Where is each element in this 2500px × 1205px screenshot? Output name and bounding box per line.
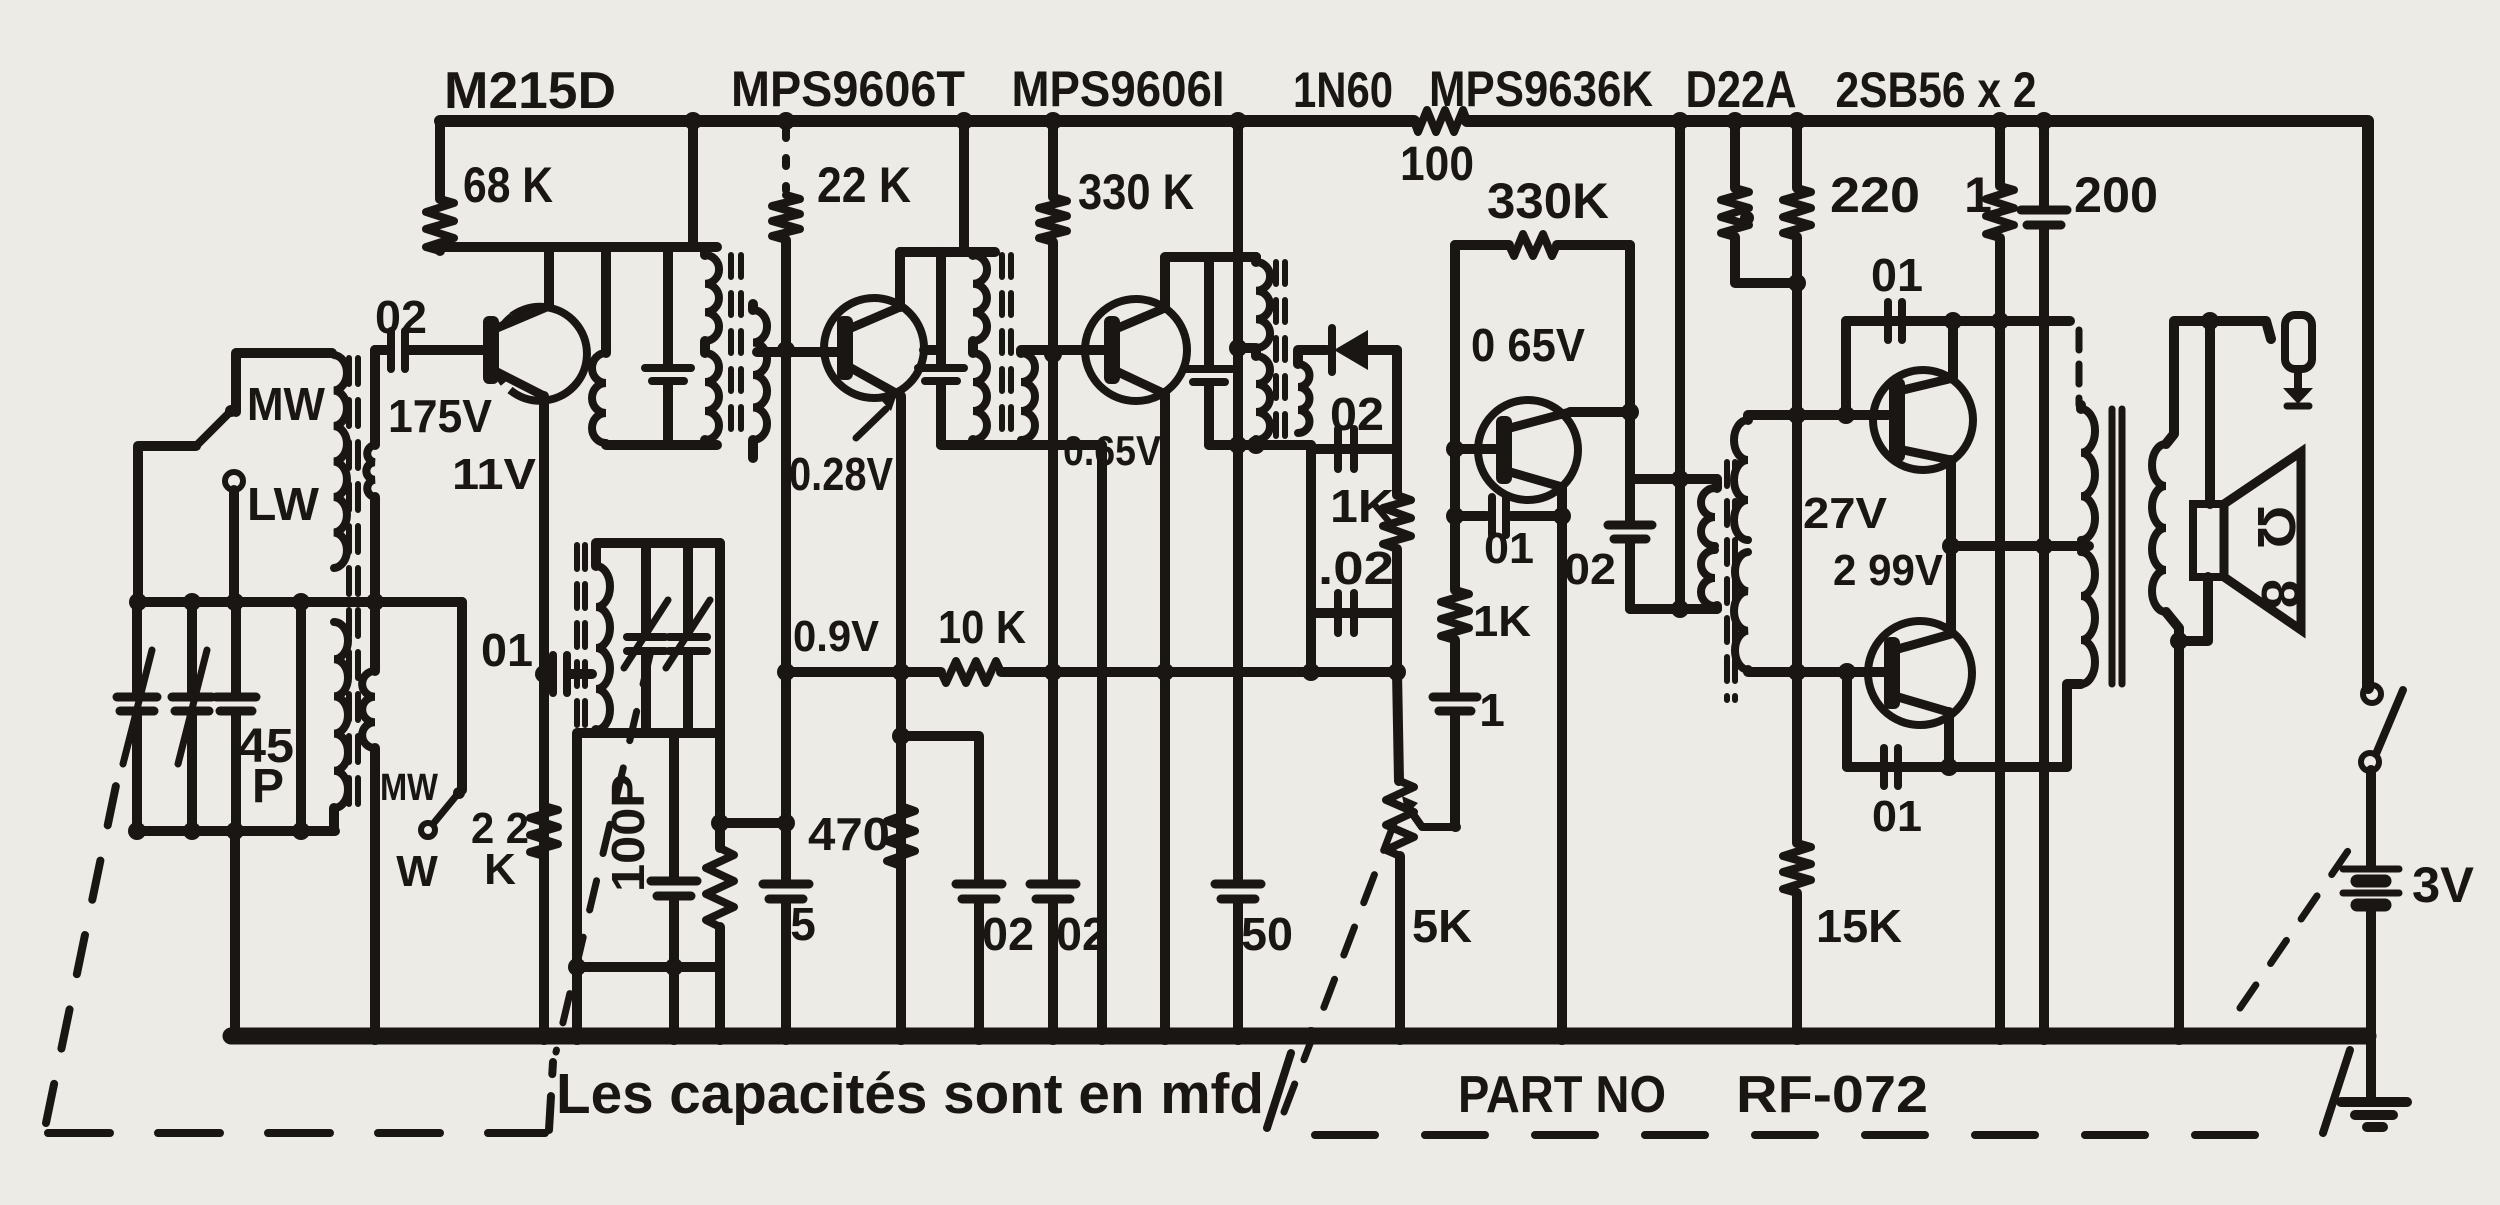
node label MPS9606I — [1012, 61, 1225, 117]
svg-text:LW: LW — [247, 478, 320, 530]
svg-text:0.65V: 0.65V — [1063, 427, 1161, 474]
ferrite core osc — [577, 545, 585, 730]
svg-text:27V: 27V — [1803, 489, 1888, 538]
coil IF1 aux — [592, 247, 606, 443]
svg-text:MPS9606T: MPS9606T — [731, 61, 965, 117]
label MW — [247, 378, 326, 430]
wire Q5 emitter — [1946, 460, 1956, 632]
node top bus dots — [684, 112, 2053, 130]
pot wiper — [1402, 796, 1456, 827]
label P — [252, 760, 284, 813]
svg-text:01: 01 — [1871, 249, 1923, 301]
coil secondary MW — [366, 445, 375, 497]
svg-text:0.9V: 0.9V — [793, 612, 880, 661]
wire band switch drop — [457, 602, 467, 790]
svg-text:22 K: 22 K — [817, 157, 911, 213]
outline slash mfd — [1267, 1053, 1291, 1128]
capacitor variable 2 — [172, 602, 212, 831]
resistor 22K emitter — [530, 806, 558, 856]
wire out cap line — [1847, 672, 2067, 767]
node r1 dot — [1991, 312, 2009, 330]
svg-text:2 99V: 2 99V — [1833, 546, 1944, 595]
transistor Q2 MPS9606T — [824, 298, 924, 398]
capacitor 45P — [216, 602, 256, 831]
ferrite core T5 — [1727, 462, 1735, 700]
node sec top dot — [2201, 312, 2219, 330]
label 0.65V — [1063, 427, 1161, 474]
label 11V — [452, 450, 537, 499]
label 5K — [1412, 900, 1472, 952]
wire det sec top — [1298, 350, 1327, 364]
node IF3 rail dots — [1229, 436, 1265, 454]
capacitor det .02 — [1338, 593, 1354, 633]
label 45 — [238, 720, 294, 773]
svg-text:0.28V: 0.28V — [789, 448, 893, 500]
svg-text:5: 5 — [790, 898, 816, 950]
svg-text:Ω: Ω — [2246, 505, 2306, 548]
outline left diagonal — [46, 766, 120, 1123]
mech link osc — [556, 655, 650, 1052]
svg-text:02: 02 — [375, 291, 427, 343]
ferrite core IF2 — [1002, 255, 1011, 440]
node label MPS9606T — [731, 61, 965, 117]
wire MW coil box — [236, 353, 332, 412]
node bias dots — [777, 341, 795, 832]
label 22 — [471, 804, 529, 853]
label 01 bottom — [1872, 792, 1922, 841]
svg-text:01: 01 — [1484, 524, 1534, 573]
wire top bus left — [440, 115, 1414, 127]
node label M215D — [444, 62, 616, 120]
wire speaker top lead — [2205, 321, 2215, 504]
wire junction rail y602 — [138, 597, 462, 607]
label 0.28V — [789, 448, 893, 500]
outline step — [549, 1062, 553, 1130]
node center tap join — [1942, 537, 1960, 555]
label part no — [1458, 1066, 1666, 1124]
node label 2SB56x2 — [1836, 62, 2037, 118]
svg-text:68 K: 68 K — [463, 157, 553, 213]
node cap01 dots — [1446, 507, 1571, 525]
label 100P — [602, 774, 654, 892]
svg-text:02: 02 — [1056, 908, 1108, 960]
label 68K — [463, 157, 553, 213]
transistor Q5 2SB56a — [1873, 370, 1973, 470]
svg-text:0 65V: 0 65V — [1471, 319, 1585, 371]
node osc fb top — [711, 814, 729, 832]
label 02 driver — [1564, 545, 1616, 594]
coil oscillator — [596, 566, 610, 730]
svg-text:MW: MW — [380, 767, 438, 809]
label K — [484, 845, 516, 894]
wire Q4 box left — [1450, 245, 1460, 449]
wire base lead Q4 — [1455, 444, 1504, 454]
outline bottom left — [48, 1129, 545, 1137]
wire bottom bus — [231, 1028, 2368, 1045]
coil IF3 secondary — [1298, 364, 1310, 433]
label 100 — [1400, 138, 1474, 191]
svg-text:15K: 15K — [1816, 900, 1902, 952]
wire det output drop — [1392, 350, 1402, 449]
svg-text:02: 02 — [1330, 388, 1384, 440]
label 1K Q4 — [1473, 597, 1531, 646]
resistor osc feedback — [706, 823, 734, 1036]
svg-text:5K: 5K — [1412, 900, 1472, 952]
wire det cap1 line — [1311, 444, 1397, 454]
capacitor 02a — [956, 884, 1002, 1036]
label 3V — [2412, 857, 2475, 913]
coil IF3 primary — [1256, 257, 1270, 445]
capacitor 02 driver — [1608, 479, 1652, 609]
coil T6 secondary — [2152, 444, 2166, 612]
capacitor 01 Q4 — [1455, 497, 1562, 535]
node dots y602 — [129, 593, 384, 611]
wire left end riser — [230, 831, 240, 1036]
capacitor 02b — [1030, 884, 1076, 899]
wire Q4 box right — [1625, 245, 1635, 479]
svg-text:1: 1 — [1964, 167, 1992, 223]
capacitor IF1 tank — [645, 247, 691, 445]
wire battery to ground — [2366, 908, 2376, 1098]
svg-text:W: W — [396, 847, 438, 896]
svg-text:1: 1 — [1479, 684, 1505, 736]
capacitor 200 — [2021, 121, 2067, 1036]
label LW — [247, 478, 320, 530]
wire base lead Q2 — [757, 347, 839, 357]
resistor 10K — [941, 661, 1001, 683]
coil antenna LW — [334, 622, 348, 808]
node bias dots PP — [1788, 274, 1806, 681]
wire osc bottom rail — [577, 967, 720, 1036]
label 470 — [808, 808, 890, 860]
wire IF2 inner — [924, 345, 941, 355]
wire T5 sec top lead — [1748, 415, 1888, 420]
outline bottom right — [1315, 1131, 2262, 1139]
battery 3V — [2343, 869, 2399, 905]
wire base lead Q1 — [406, 345, 486, 355]
wire cap01 line top — [1846, 321, 1994, 415]
capacitor IF3 tank — [1186, 257, 1232, 445]
label MW small — [380, 767, 438, 809]
resistor 330K fb — [1509, 234, 1557, 256]
svg-text:330K: 330K — [1487, 173, 1609, 229]
resistor 1K Q4 — [1441, 449, 1469, 640]
coil IF1 secondary — [753, 304, 767, 440]
wire collector Q2 — [900, 252, 995, 307]
transistor Q4 MPS9636K — [1478, 400, 1578, 500]
label .02 — [1318, 542, 1394, 594]
ground — [2341, 1102, 2407, 1127]
label 220 — [1830, 167, 1920, 223]
mech link pot — [1284, 818, 1396, 1112]
coil T5 primary — [1701, 479, 1717, 609]
wire det to pot — [1392, 613, 1402, 672]
wire feedback dashes — [1994, 321, 2079, 405]
svg-text:3V: 3V — [2412, 857, 2475, 913]
resistor 470 — [887, 806, 915, 866]
svg-text:02: 02 — [982, 908, 1034, 960]
node emitter dot Q3 — [1156, 663, 1174, 681]
node label MPS9636K — [1429, 61, 1653, 117]
label 01 osc — [481, 624, 533, 676]
svg-text:02: 02 — [1564, 545, 1616, 594]
wire speaker bottom lead — [2179, 577, 2208, 641]
label 1K det — [1330, 480, 1394, 532]
trimmer 1 — [624, 543, 668, 733]
label 02a — [982, 908, 1034, 960]
mech link switch — [2240, 845, 2352, 1008]
svg-text:01: 01 — [1872, 792, 1922, 841]
wire IF2 top — [900, 252, 973, 307]
svg-text:175V: 175V — [388, 390, 492, 442]
resistor 100 — [1414, 110, 1467, 132]
capacitor 1 — [1433, 640, 1477, 827]
jack earphone — [2283, 315, 2313, 406]
wire emitter column Q3 — [1160, 394, 1170, 1036]
wire osc left drop — [577, 733, 596, 1036]
trimmer 2 — [666, 543, 710, 733]
wire emitter column Q2 — [896, 396, 906, 1036]
svg-text:01: 01 — [481, 624, 533, 676]
capacitor variable 1 — [117, 602, 157, 831]
label rf072 — [1736, 1066, 1928, 1124]
label 15K — [1816, 900, 1902, 952]
capacitor 01 top — [1888, 302, 1902, 340]
svg-text:M215D: M215D — [444, 62, 616, 120]
ferrite core — [349, 358, 358, 818]
node osc drop — [568, 958, 586, 976]
wire gang bottom rail — [137, 826, 335, 836]
transistor Q6 2SB56b — [1868, 621, 1972, 725]
wire T5 feed — [1675, 121, 1685, 609]
label 1 — [1479, 684, 1505, 736]
wire secondary column — [370, 350, 380, 1036]
label 0.9V — [793, 612, 880, 661]
label 299V — [1833, 546, 1944, 595]
wire det cap2 line — [1311, 608, 1397, 618]
coil secondary LW — [362, 671, 375, 748]
capacitor 02 base — [391, 331, 405, 369]
wire IF2 feed — [959, 121, 969, 252]
capacitor IF2 tank — [918, 252, 964, 445]
label 330K — [1078, 164, 1194, 220]
coil T5 secondary bottom — [1734, 552, 1748, 670]
wire bias column — [1792, 237, 1802, 1036]
wire out to primary — [2067, 684, 2081, 767]
node ct dot — [2035, 537, 2053, 555]
capacitor 01 bottom — [1884, 748, 1898, 786]
resistor 1ohm — [1986, 121, 2014, 1036]
switch band contact — [421, 787, 465, 837]
label 01 top — [1871, 249, 1923, 301]
node label D22A — [1686, 61, 1797, 119]
wire Q4 box top — [1455, 240, 1630, 250]
transistor Q1 M215D — [483, 306, 587, 401]
svg-text:8: 8 — [2250, 579, 2310, 609]
node base Q4 — [1446, 440, 1464, 458]
wire plain column — [296, 602, 306, 831]
coil T5 secondary top — [1734, 420, 1748, 540]
svg-text:1K: 1K — [1330, 480, 1394, 532]
wire IF3 bottom rail — [1209, 440, 1311, 450]
wire T6 sec top — [2166, 321, 2271, 444]
wire Q5 collector — [1948, 321, 1958, 378]
ferrite core IF1 — [731, 255, 741, 440]
wire det left column — [1306, 445, 1316, 674]
resistor 1K det — [1383, 449, 1411, 613]
wire osc box — [596, 543, 720, 823]
svg-text:P: P — [252, 760, 284, 813]
wire collector Q4 — [1570, 407, 1630, 417]
svg-text:330 K: 330 K — [1078, 164, 1194, 220]
wire base lead Q3 — [1021, 350, 1105, 353]
wire switch to battery — [2366, 770, 2376, 866]
capacitor 100P — [651, 733, 697, 967]
svg-text:10 K: 10 K — [938, 601, 1026, 653]
svg-text:220: 220 — [1830, 167, 1920, 223]
svg-text:MPS9606I: MPS9606I — [1012, 61, 1225, 117]
svg-text:1N60: 1N60 — [1293, 62, 1393, 118]
wire agc drop — [1097, 445, 1107, 1036]
resistor 220 — [1783, 121, 1811, 237]
label 02b — [1056, 908, 1108, 960]
node emitter junction — [535, 665, 553, 683]
wire IF2 bottom — [941, 440, 1102, 450]
svg-text:D22A: D22A — [1686, 61, 1797, 119]
svg-text:11V: 11V — [452, 450, 537, 499]
wire IF1 bottom — [606, 440, 717, 450]
resistor 22K — [772, 130, 800, 240]
coil IF2 primary — [973, 252, 987, 445]
ferrite core IF3 — [1276, 262, 1285, 440]
wire center tap — [1951, 541, 2089, 551]
label 22K — [817, 157, 911, 213]
label 200 — [2074, 167, 2158, 223]
wire T6 sec bottom — [2166, 612, 2179, 1036]
label speaker ohm — [2246, 505, 2306, 548]
label 175V — [388, 390, 492, 442]
coil IF1 primary — [705, 247, 719, 445]
node spk bottom dot — [2170, 632, 2188, 650]
wire top bus right — [1467, 121, 2368, 688]
label 10K — [938, 601, 1026, 653]
node collector Q4 — [1621, 403, 1639, 421]
potentiometer 5K — [1386, 672, 1414, 1036]
svg-text:Les capacités sont en mfd: Les capacités sont en mfd — [556, 1062, 1264, 1126]
coil IF2 secondary — [1021, 353, 1035, 440]
node emitter dots Q2 — [892, 663, 910, 745]
wire IF1 sec bottom — [748, 440, 758, 458]
capacitor 01 osc — [544, 655, 592, 693]
outline slash right — [2323, 1050, 2350, 1133]
resistor 15K — [1783, 843, 1811, 893]
wire emitter column Q1 — [539, 396, 549, 1036]
wire T5 box — [1630, 479, 1717, 609]
node cap01 top dots — [1837, 312, 1962, 424]
node dots y831 — [128, 822, 310, 840]
capacitor 50 — [1215, 449, 1261, 1036]
svg-text:1K: 1K — [1473, 597, 1531, 646]
svg-text:.02: .02 — [1318, 542, 1394, 594]
wire antenna top stub — [138, 446, 196, 602]
wire base coupling — [375, 345, 390, 355]
diode 1N60 — [1332, 328, 1397, 372]
svg-text:RF-072: RF-072 — [1736, 1066, 1928, 1124]
svg-text:MW: MW — [247, 378, 326, 430]
label det 02 — [1330, 388, 1384, 440]
svg-text:100: 100 — [1400, 138, 1474, 191]
svg-text:50: 50 — [1241, 908, 1293, 960]
wire bias column Q2 — [781, 240, 791, 1036]
node label 1N60 — [1293, 62, 1393, 118]
coil antenna MW — [334, 355, 347, 568]
resistor 68K — [426, 121, 454, 251]
label 1ohm — [1964, 167, 1992, 223]
svg-text:470: 470 — [808, 808, 890, 860]
capacitor 5 — [763, 884, 809, 899]
node bias dots Q3 — [1044, 345, 1062, 681]
svg-text:PART NO: PART NO — [1458, 1066, 1666, 1124]
capacitor det 02 — [1338, 429, 1354, 469]
label 50 — [1241, 908, 1293, 960]
wire IF3 feed — [1229, 121, 1254, 449]
label 27V — [1803, 489, 1888, 538]
switch on-off — [2361, 685, 2403, 771]
label 01 Q4 — [1484, 524, 1534, 573]
wire collector feed Q1 — [440, 247, 717, 306]
svg-text:2SB56 x 2: 2SB56 x 2 — [1836, 62, 2037, 118]
wire 02a branch — [901, 736, 979, 881]
node bottom bus dots — [366, 1027, 2188, 1045]
label W — [396, 847, 438, 896]
emitter arrow Q2 — [856, 394, 897, 438]
switch MW lever — [196, 405, 237, 446]
wire T5 sec bottom lead — [1748, 670, 1885, 672]
label 02 base cap — [375, 291, 427, 343]
label mfd — [556, 1062, 1264, 1126]
wire collector Q3 — [1165, 257, 1256, 308]
node agc dots — [1302, 663, 1406, 681]
svg-text:K: K — [484, 845, 516, 894]
wire antenna coil bottom — [329, 808, 339, 831]
label 5 — [790, 898, 816, 950]
wire bias column Q3 — [1048, 242, 1058, 1036]
label 330K fb — [1487, 173, 1609, 229]
wire IF1 feed — [688, 121, 698, 247]
wire emitter column Q4 — [1557, 487, 1567, 1036]
resistor 330K — [1039, 121, 1067, 242]
wire agc line — [786, 667, 1397, 677]
node osc rail — [665, 958, 683, 976]
core T6 — [2112, 409, 2122, 684]
label speaker 8 — [2250, 579, 2310, 609]
transistor Q3 MPS9606I — [1085, 299, 1187, 401]
speaker — [2193, 452, 2301, 630]
coil T6 primary — [2081, 405, 2095, 684]
label 065V — [1471, 319, 1585, 371]
wire LW terminal lead — [229, 490, 239, 602]
resistor thermistor — [1721, 121, 1797, 283]
node T5 feed dots — [1671, 470, 1689, 618]
wire Q6 collector — [1944, 712, 1954, 767]
svg-text:200: 200 — [2074, 167, 2158, 223]
wire osc fb link — [720, 818, 786, 828]
terminal LW — [225, 472, 243, 490]
node out cap dots — [1838, 663, 1958, 776]
